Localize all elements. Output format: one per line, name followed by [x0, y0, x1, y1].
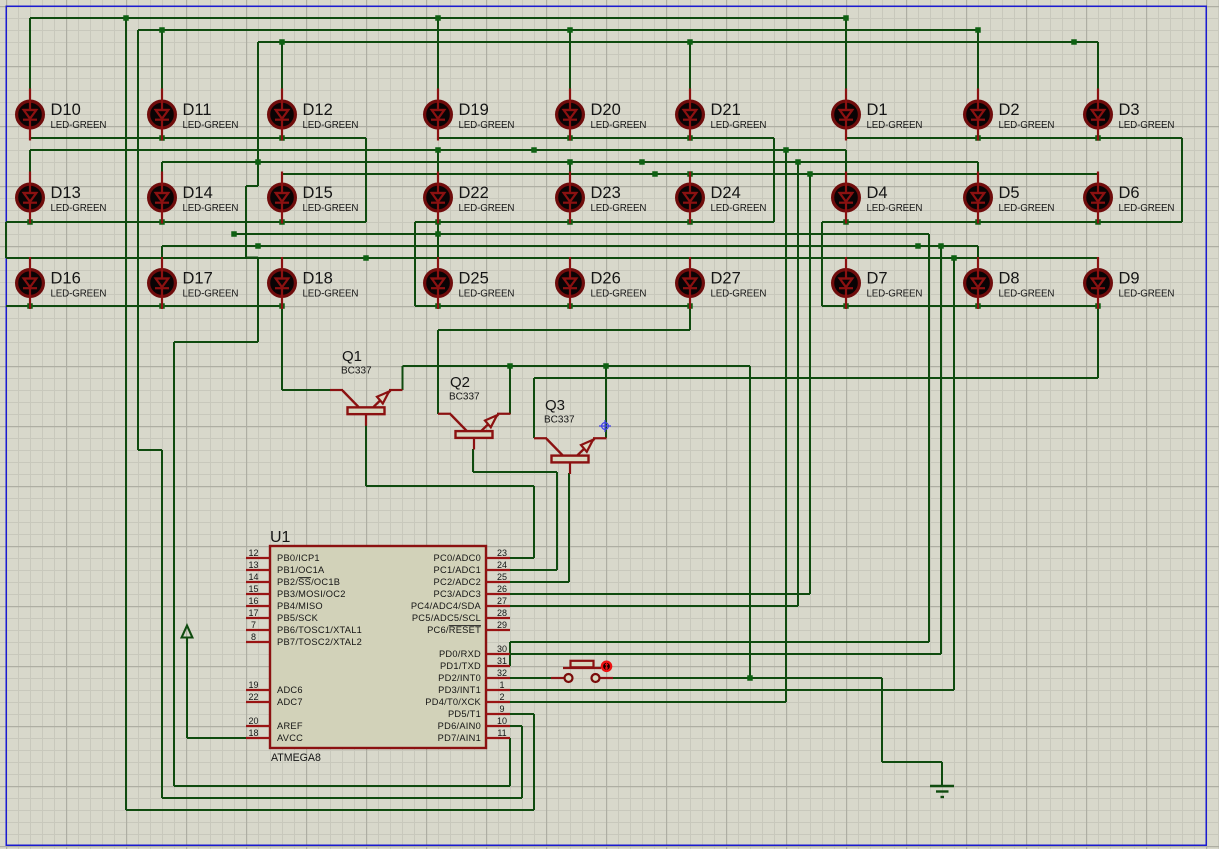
svg-text:PD3/INT1: PD3/INT1 [438, 685, 481, 695]
LED D11 (LED-GREEN) [149, 89, 239, 141]
svg-text:D8: D8 [999, 270, 1020, 288]
power terminal (AVCC arrow) [182, 626, 193, 645]
junction [255, 159, 261, 165]
svg-text:31: 31 [497, 656, 507, 666]
svg-text:25: 25 [497, 572, 507, 582]
junction [915, 243, 921, 249]
LED D8 (LED-GREEN) [965, 257, 1055, 309]
svg-text:LED-GREEN: LED-GREEN [591, 203, 647, 214]
svg-text:D18: D18 [303, 270, 333, 288]
wire [161, 30, 163, 89]
pin 13 PB1/OC1A [246, 560, 325, 575]
LED D15 (LED-GREEN) [269, 172, 359, 224]
wire [403, 365, 751, 367]
svg-text:LED-GREEN: LED-GREEN [591, 289, 647, 300]
svg-text:PC4/ADC4/SDA: PC4/ADC4/SDA [411, 601, 482, 611]
wire [30, 17, 846, 19]
svg-text:D7: D7 [867, 270, 888, 288]
svg-text:ATMEGA8: ATMEGA8 [271, 752, 321, 764]
wire [773, 138, 775, 222]
wire [1097, 172, 1099, 174]
wire [282, 173, 1098, 175]
junction [531, 147, 537, 153]
svg-text:7: 7 [251, 620, 256, 630]
svg-text:D3: D3 [1119, 101, 1140, 119]
svg-text:LED-GREEN: LED-GREEN [459, 120, 515, 131]
svg-text:LED-GREEN: LED-GREEN [867, 203, 923, 214]
junction [687, 303, 693, 309]
wire [186, 643, 188, 738]
junction [687, 39, 693, 45]
svg-text:D2: D2 [999, 101, 1020, 119]
pin 29 PC6/RESET [427, 620, 510, 635]
pin 12 PB0/ICP1 [246, 548, 320, 563]
svg-text:PC0/ADC0: PC0/ADC0 [434, 553, 481, 563]
wire [438, 137, 774, 139]
pin 14 PB2/SS/OC1B [246, 572, 340, 587]
junction [938, 243, 944, 249]
wire [521, 726, 523, 798]
wire [187, 737, 246, 739]
pin 23 PC0/ADC0 [434, 548, 510, 563]
junction [159, 27, 165, 33]
LED D3 (LED-GREEN) [1085, 89, 1175, 141]
wire [749, 366, 751, 678]
wire [173, 342, 175, 786]
svg-text:10: 10 [497, 716, 507, 726]
svg-text:PB7/TOSC2/XTAL2: PB7/TOSC2/XTAL2 [277, 637, 362, 647]
wire [245, 186, 247, 258]
svg-text:PB5/SCK: PB5/SCK [277, 613, 319, 623]
svg-text:AREF: AREF [277, 721, 303, 731]
svg-text:D12: D12 [303, 101, 333, 119]
junction [567, 303, 573, 309]
svg-text:PD7/AIN1: PD7/AIN1 [438, 733, 481, 743]
wire [281, 42, 283, 89]
wire [414, 222, 416, 306]
wire [941, 762, 943, 786]
svg-text:LED-GREEN: LED-GREEN [711, 289, 767, 300]
wire [510, 605, 798, 607]
svg-text:26: 26 [497, 584, 507, 594]
wire [822, 305, 1098, 307]
wire [809, 174, 811, 594]
LED D23 (LED-GREEN) [557, 172, 647, 224]
LED D10 (LED-GREEN) [17, 89, 107, 141]
junction [687, 171, 693, 177]
LED D26 (LED-GREEN) [557, 257, 647, 309]
wire [138, 29, 978, 31]
wire [415, 305, 690, 307]
origin marker [599, 420, 611, 432]
junction [27, 303, 33, 309]
svg-text:D23: D23 [591, 184, 621, 202]
wire [162, 245, 978, 247]
wire [162, 161, 978, 163]
pin 31 PD1/TXD [440, 656, 510, 671]
wire [30, 137, 366, 139]
wire [881, 678, 883, 762]
svg-text:LED-GREEN: LED-GREEN [183, 289, 239, 300]
svg-text:1: 1 [499, 680, 504, 690]
pin 16 PB4/MISO [246, 596, 323, 611]
LED D4 (LED-GREEN) [833, 172, 923, 224]
wire [137, 30, 139, 450]
LED D1 (LED-GREEN) [833, 89, 923, 141]
wire [125, 18, 127, 810]
svg-text:LED-GREEN: LED-GREEN [51, 120, 107, 131]
svg-text:LED-GREEN: LED-GREEN [51, 203, 107, 214]
svg-text:BC337: BC337 [449, 392, 480, 403]
ground [930, 786, 954, 797]
svg-text:Q2: Q2 [450, 374, 470, 391]
wire [437, 18, 439, 89]
pin 18 AVCC [246, 728, 303, 743]
wire [257, 257, 259, 342]
LED D18 (LED-GREEN) [269, 257, 359, 309]
svg-text:LED-GREEN: LED-GREEN [867, 120, 923, 131]
svg-text:PC1/ADC1: PC1/ADC1 [434, 565, 481, 575]
junction [783, 147, 789, 153]
wire [510, 653, 941, 655]
junction [159, 135, 165, 141]
svg-text:PD1/TXD: PD1/TXD [440, 661, 481, 671]
LED D14 (LED-GREEN) [149, 172, 239, 224]
pin 9 PD5/T1 [448, 704, 510, 719]
junction [255, 243, 261, 249]
pin 11 PD7/AIN1 [438, 728, 510, 743]
svg-text:PD6/AIN0: PD6/AIN0 [438, 721, 481, 731]
pin 25 PC2/ADC2 [434, 572, 510, 587]
svg-text:PC2/ADC2: PC2/ADC2 [434, 577, 481, 587]
svg-text:Q1: Q1 [342, 348, 362, 365]
wire [509, 654, 511, 666]
transistor Q1 (BC337) [330, 348, 403, 426]
junction [435, 231, 441, 237]
junction [747, 675, 753, 681]
svg-text:32: 32 [497, 668, 507, 678]
junction [1095, 219, 1101, 225]
wire [6, 257, 1098, 259]
wire [953, 258, 955, 690]
svg-text:20: 20 [248, 716, 258, 726]
svg-text:23: 23 [497, 548, 507, 558]
pin 32 PD2/INT0 [438, 668, 510, 683]
svg-text:PC3/ADC3: PC3/ADC3 [434, 589, 481, 599]
junction [639, 159, 645, 165]
junction [567, 159, 573, 165]
pin 17 PB5/SCK [246, 608, 319, 623]
wire [510, 713, 534, 715]
wire [510, 593, 810, 595]
IC U1 ATMEGA8 [270, 529, 486, 764]
svg-text:D11: D11 [183, 101, 212, 119]
wire [510, 677, 551, 679]
wire [6, 221, 366, 223]
junction [975, 303, 981, 309]
wire [234, 233, 929, 235]
wire [281, 306, 283, 390]
junction [843, 303, 849, 309]
pin 1 PD3/INT1 [438, 680, 510, 695]
svg-text:D21: D21 [711, 101, 741, 119]
LED D16 (LED-GREEN) [17, 257, 107, 309]
svg-text:ADC7: ADC7 [277, 697, 303, 707]
svg-text:2: 2 [499, 692, 504, 702]
wire [174, 341, 258, 343]
LED D21 (LED-GREEN) [677, 89, 767, 141]
transistor Q2 (BC337) [438, 374, 511, 450]
junction [363, 255, 369, 261]
LED D9 (LED-GREEN) [1085, 257, 1175, 309]
wire [6, 305, 282, 307]
svg-text:LED-GREEN: LED-GREEN [867, 289, 923, 300]
svg-text:D6: D6 [1119, 184, 1140, 202]
junction [279, 39, 285, 45]
svg-text:PB3/MOSI/OC2: PB3/MOSI/OC2 [277, 589, 346, 599]
junction [975, 27, 981, 33]
svg-text:AVCC: AVCC [277, 733, 303, 743]
wire [257, 42, 259, 186]
junction [279, 135, 285, 141]
wire [846, 137, 1182, 139]
junction [567, 219, 573, 225]
wire [845, 18, 847, 89]
pin 24 PC1/ADC1 [434, 560, 510, 575]
wire [928, 234, 930, 642]
wire [246, 185, 258, 187]
svg-text:LED-GREEN: LED-GREEN [591, 120, 647, 131]
svg-text:PC6/RESET: PC6/RESET [427, 625, 481, 635]
svg-text:PD5/T1: PD5/T1 [448, 709, 481, 719]
svg-text:LED-GREEN: LED-GREEN [459, 203, 515, 214]
LED D19 (LED-GREEN) [425, 89, 515, 141]
svg-text:D1: D1 [867, 101, 888, 119]
svg-text:17: 17 [248, 608, 258, 618]
LED D27 (LED-GREEN) [677, 257, 767, 309]
svg-text:12: 12 [248, 548, 258, 558]
wire [533, 714, 535, 810]
junction [279, 219, 285, 225]
wire [1097, 306, 1099, 378]
pin 28 PC5/ADC5/SCL [412, 608, 510, 623]
svg-text:LED-GREEN: LED-GREEN [999, 203, 1055, 214]
svg-text:22: 22 [248, 692, 258, 702]
svg-text:D24: D24 [711, 184, 741, 202]
wire [822, 221, 1182, 223]
wire [1181, 138, 1183, 222]
wire [797, 162, 799, 606]
svg-text:PB2/SS/OC1B: PB2/SS/OC1B [277, 577, 340, 587]
svg-text:PD4/T0/XCK: PD4/T0/XCK [425, 697, 481, 707]
junction [435, 303, 441, 309]
svg-text:PB6/TOSC1/XTAL1: PB6/TOSC1/XTAL1 [277, 625, 362, 635]
wire [365, 414, 367, 486]
junction [435, 147, 441, 153]
svg-text:LED-GREEN: LED-GREEN [183, 203, 239, 214]
wire [1097, 257, 1099, 258]
wire [161, 246, 163, 257]
svg-text:LED-GREEN: LED-GREEN [1119, 203, 1175, 214]
svg-text:PD0/RXD: PD0/RXD [439, 649, 481, 659]
svg-text:ADC6: ADC6 [277, 685, 303, 695]
junction [567, 27, 573, 33]
junction [1071, 39, 1077, 45]
junction [567, 135, 573, 141]
svg-text:D16: D16 [51, 270, 81, 288]
push button [551, 661, 613, 682]
svg-text:PD2/INT0: PD2/INT0 [438, 673, 481, 683]
wire [509, 738, 511, 786]
pin 10 PD6/AIN0 [438, 716, 510, 731]
wire [605, 366, 607, 438]
svg-text:D26: D26 [591, 270, 621, 288]
wire [415, 221, 774, 223]
wire [785, 150, 787, 702]
wire [401, 366, 403, 390]
junction [123, 15, 129, 21]
wire [977, 30, 979, 89]
wire [258, 41, 1098, 43]
wire [977, 162, 979, 172]
svg-text:BC337: BC337 [341, 366, 372, 377]
svg-text:LED-GREEN: LED-GREEN [303, 289, 359, 300]
LED D24 (LED-GREEN) [677, 172, 767, 224]
wire [510, 725, 522, 727]
pin 26 PC3/ADC3 [434, 584, 510, 599]
junction [231, 231, 237, 237]
wire [126, 809, 534, 811]
svg-text:LED-GREEN: LED-GREEN [1119, 120, 1175, 131]
wire [162, 797, 522, 799]
junction [975, 135, 981, 141]
pin 30 PD0/RXD [439, 644, 510, 659]
wire [29, 18, 31, 89]
wire [472, 449, 474, 472]
junction [951, 255, 957, 261]
svg-text:LED-GREEN: LED-GREEN [711, 203, 767, 214]
wire [161, 450, 163, 798]
svg-text:LED-GREEN: LED-GREEN [999, 289, 1055, 300]
svg-text:D4: D4 [867, 184, 888, 202]
junction [843, 15, 849, 21]
wire [246, 256, 258, 258]
svg-text:D9: D9 [1119, 270, 1140, 288]
wire [533, 486, 535, 558]
LED D13 (LED-GREEN) [17, 172, 107, 224]
svg-text:D19: D19 [459, 101, 489, 119]
svg-text:LED-GREEN: LED-GREEN [303, 120, 359, 131]
svg-text:D10: D10 [51, 101, 81, 119]
svg-text:LED-GREEN: LED-GREEN [459, 289, 515, 300]
wire [174, 785, 510, 787]
LED D25 (LED-GREEN) [425, 257, 515, 309]
wire [510, 689, 954, 691]
junction [279, 303, 285, 309]
junction [975, 219, 981, 225]
svg-text:D22: D22 [459, 184, 489, 202]
wire [30, 149, 846, 151]
svg-text:PB1/OC1A: PB1/OC1A [277, 565, 325, 575]
svg-text:13: 13 [248, 560, 258, 570]
junction [159, 303, 165, 309]
wire [161, 162, 163, 172]
wire [437, 330, 439, 414]
wire [366, 485, 534, 487]
wire [534, 377, 1098, 379]
button actuator marker [602, 662, 611, 671]
junction [687, 219, 693, 225]
pin 7 PB6/TOSC1/XTAL1 [246, 620, 362, 635]
svg-text:D5: D5 [999, 184, 1020, 202]
svg-text:U1: U1 [270, 529, 291, 546]
pin 2 PD4/T0/XCK [425, 692, 510, 707]
wire [509, 366, 511, 414]
junction [687, 135, 693, 141]
wire [437, 222, 439, 258]
svg-text:PB4/MISO: PB4/MISO [277, 601, 323, 611]
junction [1095, 303, 1101, 309]
wire [533, 378, 535, 438]
pin 20 AREF [246, 716, 303, 731]
svg-text:PC5/ADC5/SCL: PC5/ADC5/SCL [412, 613, 481, 623]
junction [159, 219, 165, 225]
wire [940, 246, 942, 654]
svg-text:D15: D15 [303, 184, 333, 202]
svg-text:PB0/ICP1: PB0/ICP1 [277, 553, 320, 563]
wire [977, 246, 979, 257]
svg-text:LED-GREEN: LED-GREEN [1119, 289, 1175, 300]
svg-text:9: 9 [499, 704, 504, 714]
svg-text:LED-GREEN: LED-GREEN [51, 289, 107, 300]
wire [510, 701, 786, 703]
LED D22 (LED-GREEN) [425, 172, 515, 224]
junction [795, 159, 801, 165]
wire [365, 138, 367, 222]
wire [438, 329, 690, 331]
svg-text:28: 28 [497, 608, 507, 618]
junction [435, 15, 441, 21]
svg-text:29: 29 [497, 620, 507, 630]
wire [509, 642, 511, 654]
wire [510, 557, 534, 559]
svg-text:11: 11 [497, 728, 506, 738]
svg-text:18: 18 [248, 728, 258, 738]
svg-text:19: 19 [248, 680, 258, 690]
junction [27, 219, 33, 225]
svg-text:BC337: BC337 [544, 415, 575, 426]
svg-text:D20: D20 [591, 101, 621, 119]
svg-text:14: 14 [248, 572, 258, 582]
svg-text:LED-GREEN: LED-GREEN [303, 203, 359, 214]
svg-text:16: 16 [248, 596, 258, 606]
wire [821, 222, 823, 306]
wire [5, 222, 7, 258]
svg-text:27: 27 [497, 596, 507, 606]
wire [1097, 42, 1099, 89]
pin 27 PC4/ADC4/SDA [411, 596, 510, 611]
svg-text:D25: D25 [459, 270, 489, 288]
svg-text:Q3: Q3 [545, 397, 565, 414]
junction [652, 171, 658, 177]
transistor Q3 (BC337) [534, 397, 607, 474]
LED D20 (LED-GREEN) [557, 89, 647, 141]
LED D5 (LED-GREEN) [965, 172, 1055, 224]
junction [435, 219, 441, 225]
wire [569, 162, 571, 172]
wire [29, 150, 31, 172]
junction [603, 363, 609, 369]
